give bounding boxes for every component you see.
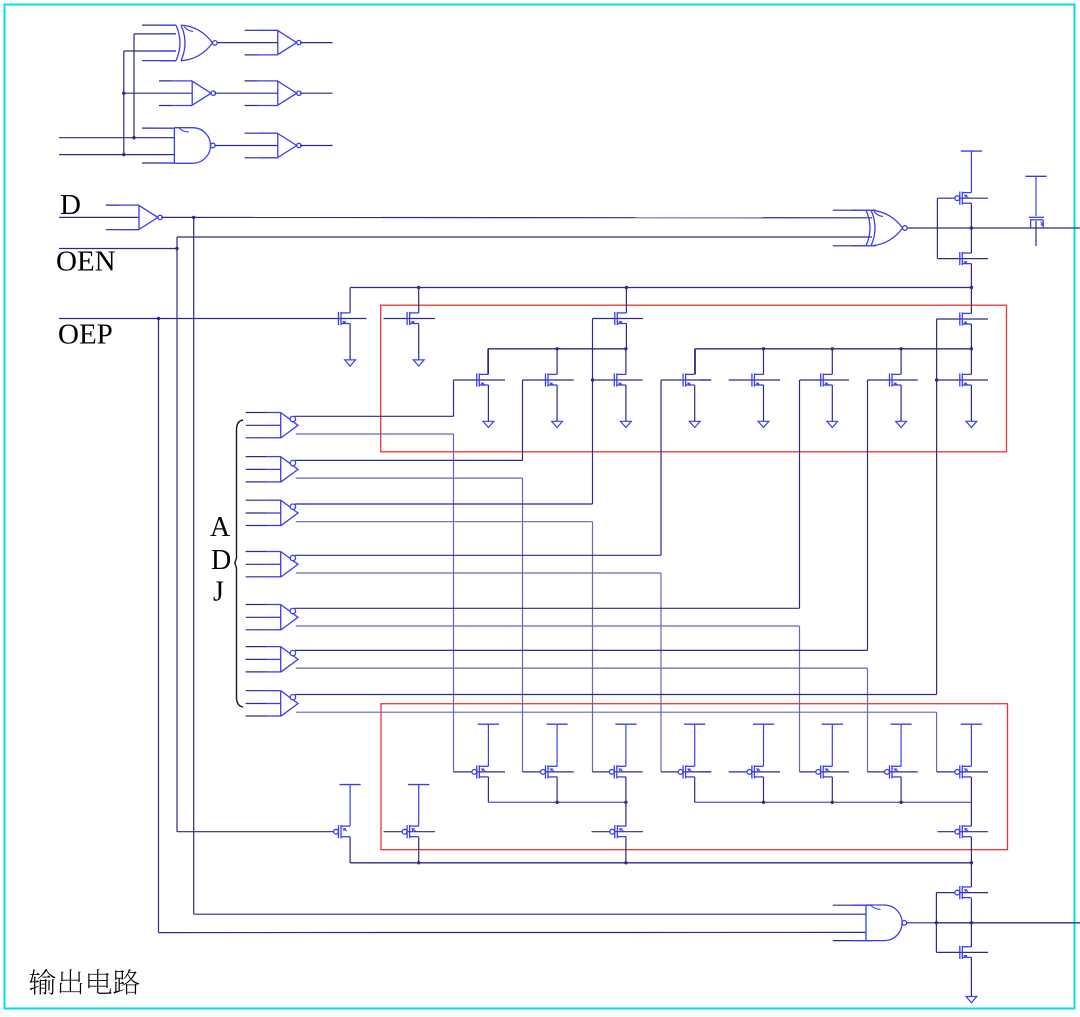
svg-text:D: D bbox=[211, 545, 231, 576]
transistor P9 (pmos 2nd level left) bbox=[610, 825, 627, 838]
wire+gate net row2 M1 bbox=[454, 349, 506, 422]
gate net row3 P4 bbox=[661, 771, 711, 773]
transistor Q1 (OEP nmos left) bbox=[339, 312, 351, 325]
ground M5 bbox=[758, 421, 769, 427]
buffer U5 (D input inverter) bbox=[106, 205, 163, 230]
supply cap P1 bbox=[478, 723, 499, 725]
wire D net to bottom NAND bbox=[194, 913, 866, 915]
supply cap Q5 bbox=[961, 150, 982, 152]
wire OEP input bbox=[59, 318, 367, 320]
wire column 5 up bbox=[799, 380, 801, 608]
transistor M7 (nmos row2) bbox=[890, 373, 902, 386]
wire P6 drain up bbox=[831, 724, 833, 766]
wire A4 true output bbox=[295, 554, 661, 556]
transistor P8 (pmos row3) bbox=[955, 765, 972, 778]
wire A7 true output bbox=[295, 694, 937, 696]
wire P9 drain up bbox=[625, 802, 627, 826]
wire Q3 source to mid rail bbox=[625, 324, 627, 349]
transistor Q2 (OEP nmos right) bbox=[407, 312, 419, 325]
transistor M6 (nmos row2) bbox=[821, 373, 833, 386]
wire U3 output bbox=[300, 92, 332, 94]
wire column 3 down bbox=[592, 522, 594, 772]
junction D net / column bbox=[192, 216, 195, 219]
wire P9 source down bbox=[625, 837, 627, 863]
transistor Q4 (feedback nmos right) bbox=[960, 312, 972, 325]
buffer A5 (ADJ complementary driver) bbox=[246, 605, 298, 631]
transistor P13 (output pmos bottom) bbox=[955, 886, 972, 899]
wire column 2 down bbox=[522, 478, 524, 772]
wire P7 drain up bbox=[900, 724, 902, 766]
wire column 3 up bbox=[592, 319, 594, 505]
wire P1 drain up bbox=[487, 724, 489, 766]
inverter U3 (row2 second) bbox=[245, 81, 301, 106]
nand gate G4 (bottom output gate) bbox=[866, 905, 907, 941]
wire column 5 down bbox=[799, 626, 801, 772]
transistor M5 (nmos row2) bbox=[752, 373, 764, 386]
buffer A1 (ADJ complementary driver) bbox=[246, 413, 298, 439]
wire P10 drain up bbox=[970, 802, 972, 826]
wire NAND input stub 1 bbox=[142, 127, 174, 129]
svg-text:A: A bbox=[210, 512, 231, 543]
brace ADJ group bbox=[235, 420, 243, 707]
wire Q4 drain up bbox=[970, 288, 972, 314]
wire G4 input stub bottom bbox=[833, 940, 872, 942]
wire A5 true output bbox=[295, 607, 800, 609]
wire U4 output bbox=[300, 145, 332, 147]
transistor Q5 (output pmos top) bbox=[955, 192, 972, 205]
supply cap Q7 bbox=[1025, 175, 1046, 177]
label D (ADJ) bbox=[211, 545, 231, 576]
wire gate bar bottom stage bbox=[935, 893, 937, 953]
wire G3 input stub top bbox=[833, 209, 876, 211]
wire P12 source down bbox=[418, 837, 420, 863]
transistor P1 (pmos row3) bbox=[472, 765, 489, 778]
transistor M8 (nmos row2) bbox=[960, 373, 972, 386]
wire VDD rail (top) bbox=[350, 287, 971, 289]
junction bus A / P3 / P9 bbox=[624, 801, 627, 804]
wire P9 gate stub bbox=[592, 831, 644, 833]
wire D net to output gate bbox=[161, 216, 872, 218]
vertical wire OEP down bbox=[158, 319, 160, 933]
junction bottom bus / P10 bbox=[970, 861, 973, 864]
supply cap P5 bbox=[753, 723, 774, 725]
label A bbox=[210, 512, 231, 543]
junction output node bottom bbox=[970, 921, 973, 924]
wire P2 source down bbox=[556, 777, 558, 802]
junction node A / row2 input bbox=[122, 92, 125, 95]
junction G4 output / gate bar bbox=[935, 921, 938, 924]
transistor Q3 (feedback nmos) bbox=[615, 312, 627, 325]
wire P12 drain up bbox=[418, 785, 420, 827]
junction bus B / P6 bbox=[762, 801, 765, 804]
vertical wire node B bbox=[133, 34, 135, 138]
wire NAND input stub 4 bbox=[142, 162, 174, 164]
wire+gate net row2 M6 bbox=[800, 347, 849, 421]
ground Q8 bbox=[966, 997, 977, 1003]
label J bbox=[213, 577, 224, 608]
wire OEN to output gate bbox=[177, 236, 872, 238]
wire OEN to pullup pair gates bbox=[177, 831, 336, 833]
ground M1 bbox=[483, 421, 494, 427]
transistor Q7 (pass nmos, gate-up) bbox=[1029, 217, 1044, 228]
wire row1 gate input 3 from node A bbox=[124, 50, 176, 52]
nand gate G2 (row3) bbox=[174, 128, 215, 164]
supply cap P4 bbox=[684, 723, 705, 725]
vertical wire node A bbox=[123, 51, 125, 155]
wire A7 complement output bbox=[296, 711, 937, 713]
wire+gate net row2 M4 bbox=[661, 349, 711, 422]
supply cap P11 bbox=[340, 784, 361, 786]
wire P13 gate bbox=[936, 892, 988, 894]
nor gate G1 (4-input, top row) bbox=[176, 25, 217, 61]
wire row1 gate input 2 from node B bbox=[134, 33, 176, 35]
transistor P12 (OEN pmos right) bbox=[402, 825, 419, 838]
gate net row3 P2 bbox=[523, 771, 574, 773]
wire column 7 up bbox=[936, 319, 938, 695]
supply cap P8 bbox=[961, 723, 982, 725]
junction bottom bus / P12 bbox=[417, 861, 420, 864]
junction rail / Q3 drain bbox=[625, 286, 628, 289]
ground Q1 bbox=[345, 360, 356, 366]
wire P4 source down bbox=[694, 777, 696, 802]
wire P8 drain up bbox=[970, 724, 972, 766]
wire row1 gate input stub 4 bbox=[142, 60, 176, 62]
wire Q1 drain up bbox=[349, 288, 351, 313]
wire OEN rise bbox=[176, 237, 178, 249]
wire A2 complement output bbox=[296, 477, 523, 479]
wire Q6 source down bbox=[970, 264, 972, 288]
wire NAND input 3 bbox=[59, 154, 174, 156]
ground M2 bbox=[552, 421, 563, 427]
wire column 6 down bbox=[867, 668, 869, 772]
wire G3 output bbox=[907, 227, 937, 229]
wire G4 input stub top bbox=[833, 904, 872, 906]
transistor P10 (pmos 2nd level right) bbox=[955, 825, 972, 838]
buffer A7 (ADJ complementary driver) bbox=[246, 691, 298, 717]
wire A1 complement output bbox=[296, 433, 454, 435]
transistor P4 (pmos row3) bbox=[678, 765, 695, 778]
wire P3 source down bbox=[625, 777, 627, 802]
junction OEN corner bbox=[175, 247, 178, 250]
wire Q2 source down bbox=[418, 324, 420, 360]
wire P5 source down bbox=[763, 777, 765, 802]
wire row2 input bbox=[124, 92, 192, 94]
label OEN bbox=[56, 246, 116, 278]
buffer A4 (ADJ complementary driver) bbox=[246, 552, 298, 578]
inverter U4 (row3) bbox=[245, 133, 301, 158]
junction OEP / column bbox=[157, 317, 160, 320]
wire G3 input stub bottom bbox=[833, 245, 876, 247]
junction bus B / P8 bbox=[899, 801, 902, 804]
buffer A3 (ADJ complementary driver) bbox=[246, 500, 298, 526]
wire P5 drain up bbox=[763, 724, 765, 766]
transistor P6 (pmos row3) bbox=[816, 765, 833, 778]
gate net row3 P1 bbox=[454, 771, 506, 773]
gate net row3 P6 bbox=[800, 771, 849, 773]
ground M3 bbox=[621, 421, 632, 427]
wire NAND input 2 bbox=[59, 137, 174, 139]
wire P4 drain up bbox=[694, 724, 696, 766]
xnor gate G3 (top output gate) bbox=[866, 210, 907, 246]
wire+gate net row2 M7 bbox=[868, 347, 918, 421]
transistor Q6 (output nmos top) bbox=[960, 252, 972, 265]
wire P2 drain up bbox=[556, 724, 558, 766]
wire P1 source down bbox=[487, 777, 489, 802]
wire column 7 down bbox=[936, 712, 938, 772]
red highlight box 2 (lower transistor block) bbox=[381, 704, 1008, 850]
ground Q2 bbox=[413, 360, 424, 366]
wire A6 complement output bbox=[296, 667, 868, 669]
transistor P5 (pmos row3) bbox=[747, 765, 764, 778]
wire A6 true output bbox=[295, 649, 868, 651]
junction bottom bus / P9 bbox=[624, 861, 627, 864]
junction output node top bbox=[970, 226, 973, 229]
wire P11 source down bbox=[349, 837, 351, 863]
wire column 1 up bbox=[453, 380, 455, 416]
ground M7 bbox=[896, 421, 907, 427]
ground M4 bbox=[689, 421, 700, 427]
ground M8 bbox=[966, 421, 977, 427]
gate net row3 P3 bbox=[593, 771, 643, 773]
wire bottom output net bbox=[936, 922, 1080, 924]
wire column 4 down bbox=[660, 573, 662, 772]
wire column 6 up bbox=[867, 380, 869, 650]
wire P10 gate stub bbox=[938, 831, 989, 833]
transistor Q8 (output nmos bottom) bbox=[960, 946, 972, 959]
wire Q5 drain down bbox=[970, 203, 972, 228]
buffer A6 (ADJ complementary driver) bbox=[246, 647, 298, 673]
wire source bus A bbox=[488, 801, 626, 803]
wire Q7 gate stem bbox=[1035, 176, 1037, 216]
transistor M2 (nmos row2) bbox=[546, 373, 558, 386]
wire Q6 drain up bbox=[970, 228, 972, 253]
junction bus A / P2 bbox=[555, 801, 558, 804]
junction node A / NAND input bbox=[122, 153, 125, 156]
transistor P11 (OEN pmos left) bbox=[334, 825, 351, 838]
wire Q5 gate bbox=[937, 197, 988, 199]
wire G2 output to U4 bbox=[215, 145, 278, 147]
wire P3 drain up bbox=[625, 724, 627, 766]
wire rail B drop to M4 drain bbox=[694, 349, 696, 375]
wire U1 output bbox=[300, 42, 332, 44]
junction bus B / P7 bbox=[831, 801, 834, 804]
wire source bus B bbox=[695, 801, 972, 803]
wire Q3 gate bbox=[593, 318, 644, 320]
wire Q8 drain up bbox=[970, 923, 972, 947]
wire P13 source up bbox=[970, 863, 972, 887]
transistor M4 (nmos row2) bbox=[683, 373, 695, 386]
svg-text:OEN: OEN bbox=[56, 246, 116, 278]
wire P11 drain up bbox=[349, 785, 351, 827]
wire A5 complement output bbox=[296, 625, 800, 627]
wire OEP to bottom NAND bbox=[159, 931, 867, 933]
wire Q7 bulk stub bbox=[1035, 221, 1037, 246]
wire rail A drop to M1 drain bbox=[487, 349, 489, 375]
wire Q1 source down bbox=[349, 324, 351, 360]
wire column 1 down bbox=[453, 434, 455, 772]
wire Q8 gate bbox=[936, 951, 988, 953]
wire A3 complement output bbox=[296, 521, 593, 523]
inverter U1 (row1) bbox=[245, 30, 301, 55]
wire+gate net row2 M8 bbox=[935, 347, 988, 421]
label OEP bbox=[58, 319, 113, 351]
junction rail / Q2 drain bbox=[417, 286, 420, 289]
inverter U2 (row2 first) bbox=[159, 81, 216, 106]
wire A4 complement output bbox=[296, 572, 661, 574]
label caption 输出电路 bbox=[29, 969, 139, 995]
wire Q2 drain up bbox=[418, 288, 420, 313]
supply cap P2 bbox=[547, 723, 568, 725]
wire P12 gate stub bbox=[384, 831, 436, 833]
junction rail / output column bbox=[970, 286, 973, 289]
wire+gate net row2 M5 bbox=[700, 347, 780, 421]
transistor M3 (nmos row2) bbox=[614, 373, 626, 386]
transistor P7 (pmos row3) bbox=[885, 765, 902, 778]
wire A1 true output bbox=[295, 415, 454, 417]
svg-text:OEP: OEP bbox=[58, 319, 113, 351]
wire Q8 source down bbox=[970, 957, 972, 996]
transistor M1 (nmos row2) bbox=[477, 373, 489, 386]
wire P13 drain down bbox=[970, 898, 972, 923]
wire P10 source down bbox=[970, 837, 972, 863]
supply cap P7 bbox=[891, 723, 912, 725]
wire top output net bbox=[937, 227, 1080, 229]
wire OEN input bbox=[59, 248, 177, 250]
junction node B / NAND input bbox=[132, 136, 135, 139]
svg-text:J: J bbox=[213, 577, 224, 608]
wire gate bar top stage bbox=[936, 198, 938, 258]
supply cap P12 bbox=[408, 784, 429, 786]
wire P7 source down bbox=[900, 777, 902, 802]
svg-text:D: D bbox=[60, 189, 81, 221]
buffer A2 (ADJ complementary driver) bbox=[246, 457, 298, 483]
wire G1 output to U1 bbox=[217, 42, 278, 44]
gate net row3 P8 bbox=[937, 771, 988, 773]
wire G4 output bbox=[907, 922, 937, 924]
wire A2 true output bbox=[295, 459, 523, 461]
wire Q5 source up bbox=[970, 151, 972, 193]
vertical wire OEN down bbox=[176, 249, 178, 832]
supply cap P3 bbox=[615, 723, 636, 725]
wire column 4 up bbox=[660, 380, 662, 555]
wire P6 source down bbox=[831, 777, 833, 802]
wire A3 true output bbox=[295, 503, 593, 505]
wire P8 source down bbox=[970, 777, 972, 802]
wire Q3 drain up bbox=[625, 288, 627, 313]
wire row1 gate input stub 1 bbox=[142, 24, 176, 26]
wire bottom supply bus bbox=[350, 862, 971, 864]
wire Q6 gate bbox=[937, 258, 988, 260]
wire column 2 up bbox=[522, 380, 524, 460]
gate net row3 P7 bbox=[868, 771, 918, 773]
wire mid rail segment B bbox=[695, 348, 971, 350]
transistor P2 (pmos row3) bbox=[541, 765, 558, 778]
gate net row3 P5 bbox=[700, 771, 780, 773]
wire Q2 gate stub bbox=[384, 318, 436, 320]
wire+gate net row2 M2 bbox=[523, 347, 574, 421]
ground M6 bbox=[827, 421, 838, 427]
wire D input bbox=[59, 216, 139, 218]
wire+gate net row2 M3 bbox=[591, 347, 643, 421]
transistor P3 (pmos row3) bbox=[609, 765, 626, 778]
label D bbox=[60, 189, 81, 221]
red highlight box 1 (upper transistor block) bbox=[381, 305, 1007, 452]
wire Q4 gate bbox=[937, 318, 988, 320]
wire U2 to U3 bbox=[215, 92, 278, 94]
wire Q4 source to mid rail bbox=[970, 324, 972, 349]
vertical wire D net down bbox=[193, 217, 195, 914]
wire mid rail segment A bbox=[488, 348, 627, 350]
supply cap P6 bbox=[822, 723, 843, 725]
